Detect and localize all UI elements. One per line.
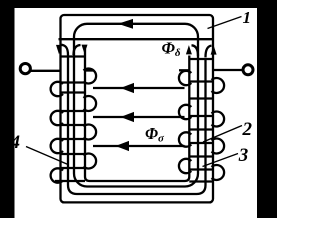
winding W-right: left-side loop bumps: [179, 71, 191, 85]
window inner boundary: [85, 49, 189, 181]
core outer boundary (magnetic core, item 1): [61, 15, 214, 202]
svg-text:1: 1: [243, 8, 252, 27]
leader line label 4: [26, 147, 68, 165]
left terminal circle: [20, 64, 30, 74]
winding connection loop: [68, 55, 206, 194]
left terminal wire: [31, 70, 60, 72]
arrowhead Φσ 2: [121, 112, 135, 122]
winding W-right: top wire end curves: [192, 45, 199, 56]
leader line label 1: [208, 17, 242, 29]
leakage flux line Φσ 3: [93, 145, 185, 147]
flux path loop Φδ: [74, 24, 198, 187]
wire arrow up right leg inner: [186, 45, 192, 54]
winding W-left: right-side loop bumps: [84, 68, 97, 83]
leader line label 3: [203, 154, 239, 167]
black border bar right: [257, 0, 277, 218]
leakage flux line Φσ 2: [93, 116, 185, 118]
wire arrow down left leg outer: [56, 45, 62, 54]
winding W-left: wire crossings over leg: [60, 55, 85, 57]
wire arrow down left leg inner: [82, 45, 88, 54]
winding W-left: top wire end curves: [61, 45, 69, 55]
svg-text:3: 3: [238, 145, 249, 166]
leader line label 2: [203, 126, 242, 143]
winding W-right: right-side loop bumps: [212, 78, 225, 93]
svg-text:4: 4: [10, 132, 21, 153]
leakage flux line Φσ 1: [93, 87, 185, 89]
right terminal wire: [214, 69, 243, 71]
right terminal circle: [243, 65, 253, 75]
arrowhead Φσ 1: [121, 83, 135, 93]
wire linking windings across top: [59, 38, 214, 40]
arrowhead Φσ 3: [116, 141, 130, 151]
svg-text:2: 2: [242, 119, 253, 140]
flux arrowhead Φδ top: [118, 19, 133, 29]
black border bar top: [0, 0, 277, 8]
black border bar left: [0, 0, 15, 218]
winding W-right: wire crossings over leg: [189, 58, 213, 60]
wire arrow up right leg outer: [211, 45, 217, 54]
winding W-left: left-side loop bumps: [51, 82, 63, 96]
